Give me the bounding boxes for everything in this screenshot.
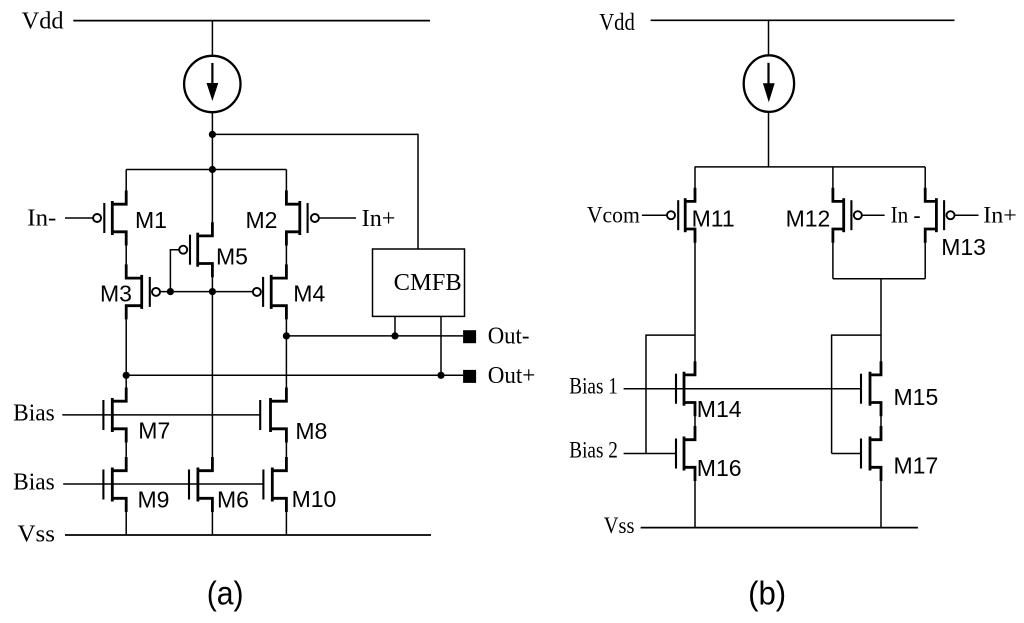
wire Vdd to current source <box>211 21 213 57</box>
terminal Out- square <box>463 330 476 343</box>
transistor M6 <box>196 468 199 502</box>
node M5 gate junction <box>167 288 174 295</box>
wire M13 drain down <box>924 242 926 279</box>
wire M10 to Vss <box>285 511 287 535</box>
wire In- lead to M1 gate <box>65 217 93 219</box>
block CMFB U1 <box>373 249 465 316</box>
transistor M4 <box>270 275 273 309</box>
wire source to M11 <box>694 167 696 189</box>
wire M2 drain to M4 source <box>285 245 287 266</box>
wire Bias1 bus (a) <box>62 414 260 416</box>
svg-text:Vss: Vss <box>604 513 635 538</box>
current source I2 arrow <box>767 63 769 86</box>
transistor M8 <box>269 398 272 432</box>
wire M11 drain to M14 <box>694 242 696 363</box>
wire source rail M1-M2 <box>126 169 286 171</box>
svg-text:M15: M15 <box>894 384 939 410</box>
wire M12 drain down <box>832 242 834 279</box>
svg-text:Vcom: Vcom <box>587 203 640 228</box>
transistor M1 <box>111 201 114 235</box>
svg-text:In -: In - <box>891 203 921 228</box>
current source I1 arrow <box>211 63 213 87</box>
current source I1 circle <box>184 56 240 112</box>
transistor M14 <box>683 372 686 406</box>
wire tail node to CMFB input <box>212 134 418 249</box>
wire M8 to M10 <box>285 442 287 459</box>
node CMFB out2 on Out+ net <box>437 372 444 379</box>
node tail A <box>209 131 216 138</box>
svg-text:M3: M3 <box>100 281 132 307</box>
wire M9 to Vss <box>125 511 127 535</box>
svg-text:M17: M17 <box>894 453 939 479</box>
svg-text:M10: M10 <box>292 486 337 512</box>
svg-text:M4: M4 <box>293 281 325 307</box>
wire In+ lead (b) <box>955 214 979 216</box>
svg-text:M2: M2 <box>246 207 278 233</box>
wire CMFB output 1 <box>394 316 396 336</box>
wire drain bus to M15 column <box>880 279 882 362</box>
svg-text:Bias: Bias <box>13 400 55 426</box>
wire M6 to Vss <box>211 511 213 535</box>
svg-text:M14: M14 <box>697 396 742 422</box>
wire source rail M11-M12-M13 <box>695 166 926 168</box>
wire M5 gate lead <box>170 250 179 292</box>
wire M4 column crossing to M8 <box>285 336 287 389</box>
svg-text:(b): (b) <box>748 575 786 612</box>
transistor M11 <box>684 198 687 232</box>
wire M12-M13 drain bus <box>833 278 925 280</box>
wire M14 to M16 <box>694 415 696 427</box>
svg-text:Bias 1: Bias 1 <box>569 374 618 399</box>
wire Out- net <box>286 335 463 337</box>
svg-text:Vdd: Vdd <box>22 8 64 34</box>
svg-text:M16: M16 <box>697 455 742 481</box>
wire current source to tail node <box>211 112 213 135</box>
wire source to M12 <box>832 167 834 189</box>
wire Vcom lead <box>642 214 667 216</box>
wire Vss rail (a) <box>65 534 431 536</box>
wire current source to source rail (b) <box>768 112 770 167</box>
wire source to M1 <box>125 170 127 192</box>
svg-text:CMFB: CMFB <box>394 270 462 296</box>
svg-text:M1: M1 <box>135 207 167 233</box>
svg-text:Out-: Out- <box>488 323 530 349</box>
transistor M17 <box>869 437 872 471</box>
svg-text:Bias 2: Bias 2 <box>569 438 618 463</box>
svg-text:M8: M8 <box>295 418 327 444</box>
wire M7 to M9 <box>125 442 127 459</box>
wire M1 drain to M3 source <box>125 245 127 266</box>
svg-text:M5: M5 <box>216 244 248 270</box>
transistor M9 <box>111 468 114 502</box>
wire left feedback bracket <box>646 335 695 453</box>
svg-text:In-: In- <box>27 205 56 231</box>
wire Out+ net <box>126 374 463 376</box>
transistor M2 <box>298 201 301 235</box>
transistor M16 <box>683 437 686 471</box>
current source I2 circle <box>744 55 794 112</box>
wire In- lead (b) <box>862 214 885 216</box>
svg-text:Bias: Bias <box>13 469 55 495</box>
svg-text:In+: In+ <box>983 203 1017 228</box>
wire Vdd rail (a) <box>73 20 430 22</box>
wire M3 column to M7 <box>125 375 127 388</box>
wire Vss rail (b) <box>641 527 918 529</box>
wire CMFB output 2 <box>440 316 442 375</box>
wire M5 drain down <box>211 276 213 291</box>
wire M17 to Vss <box>880 480 882 528</box>
wire M5 column to M6 <box>211 292 213 458</box>
wire right feedback bracket <box>832 335 881 453</box>
wire In+ lead to M2 gate <box>319 217 356 219</box>
svg-text:M12: M12 <box>786 206 831 232</box>
svg-text:In+: In+ <box>362 206 396 232</box>
node source junction <box>209 166 216 173</box>
terminal Out+ square <box>463 370 476 383</box>
transistor M7 <box>111 398 114 432</box>
svg-text:M7: M7 <box>138 418 170 444</box>
svg-text:Vss: Vss <box>18 522 56 548</box>
svg-text:(a): (a) <box>207 574 244 611</box>
transistor M10 <box>271 468 274 502</box>
transistor M5 <box>196 233 199 267</box>
svg-text:Out+: Out+ <box>488 363 536 389</box>
transistor M3 <box>140 275 143 309</box>
node center gate junction <box>209 288 216 295</box>
transistor M12 <box>842 198 845 232</box>
wire Bias1 bus (b) <box>624 388 861 390</box>
transistor M13 <box>935 198 938 232</box>
wire source to M2 <box>285 170 287 192</box>
wire Vdd to current source (b) <box>768 20 770 56</box>
wire center to M5 <box>211 170 213 224</box>
svg-text:M13: M13 <box>941 234 986 260</box>
svg-text:M11: M11 <box>692 206 735 232</box>
node CMFB out1 on Out- net <box>391 332 398 339</box>
wire Bias2 lead <box>624 453 675 455</box>
svg-text:M9: M9 <box>138 487 170 513</box>
wire Vdd rail (b) <box>651 19 955 21</box>
transistor M15 <box>869 372 872 406</box>
wire M16 to Vss <box>694 480 696 528</box>
wire gate bus M3-M4 <box>160 291 253 293</box>
svg-text:M6: M6 <box>217 487 249 513</box>
wire Bias2 bus (a) <box>63 483 263 485</box>
wire tail node down <box>211 134 213 169</box>
wire M17 gate lead <box>832 453 860 455</box>
svg-text:Vdd: Vdd <box>599 10 635 36</box>
node Out- junction at M4 <box>283 332 290 339</box>
wire M3 drain down to Out+ node <box>125 318 127 375</box>
wire source to M13 <box>924 167 926 189</box>
wire M15 to M17 <box>880 415 882 427</box>
wire M4 drain down to Out- node <box>285 318 287 336</box>
node Out+ junction at M3 <box>123 372 130 379</box>
